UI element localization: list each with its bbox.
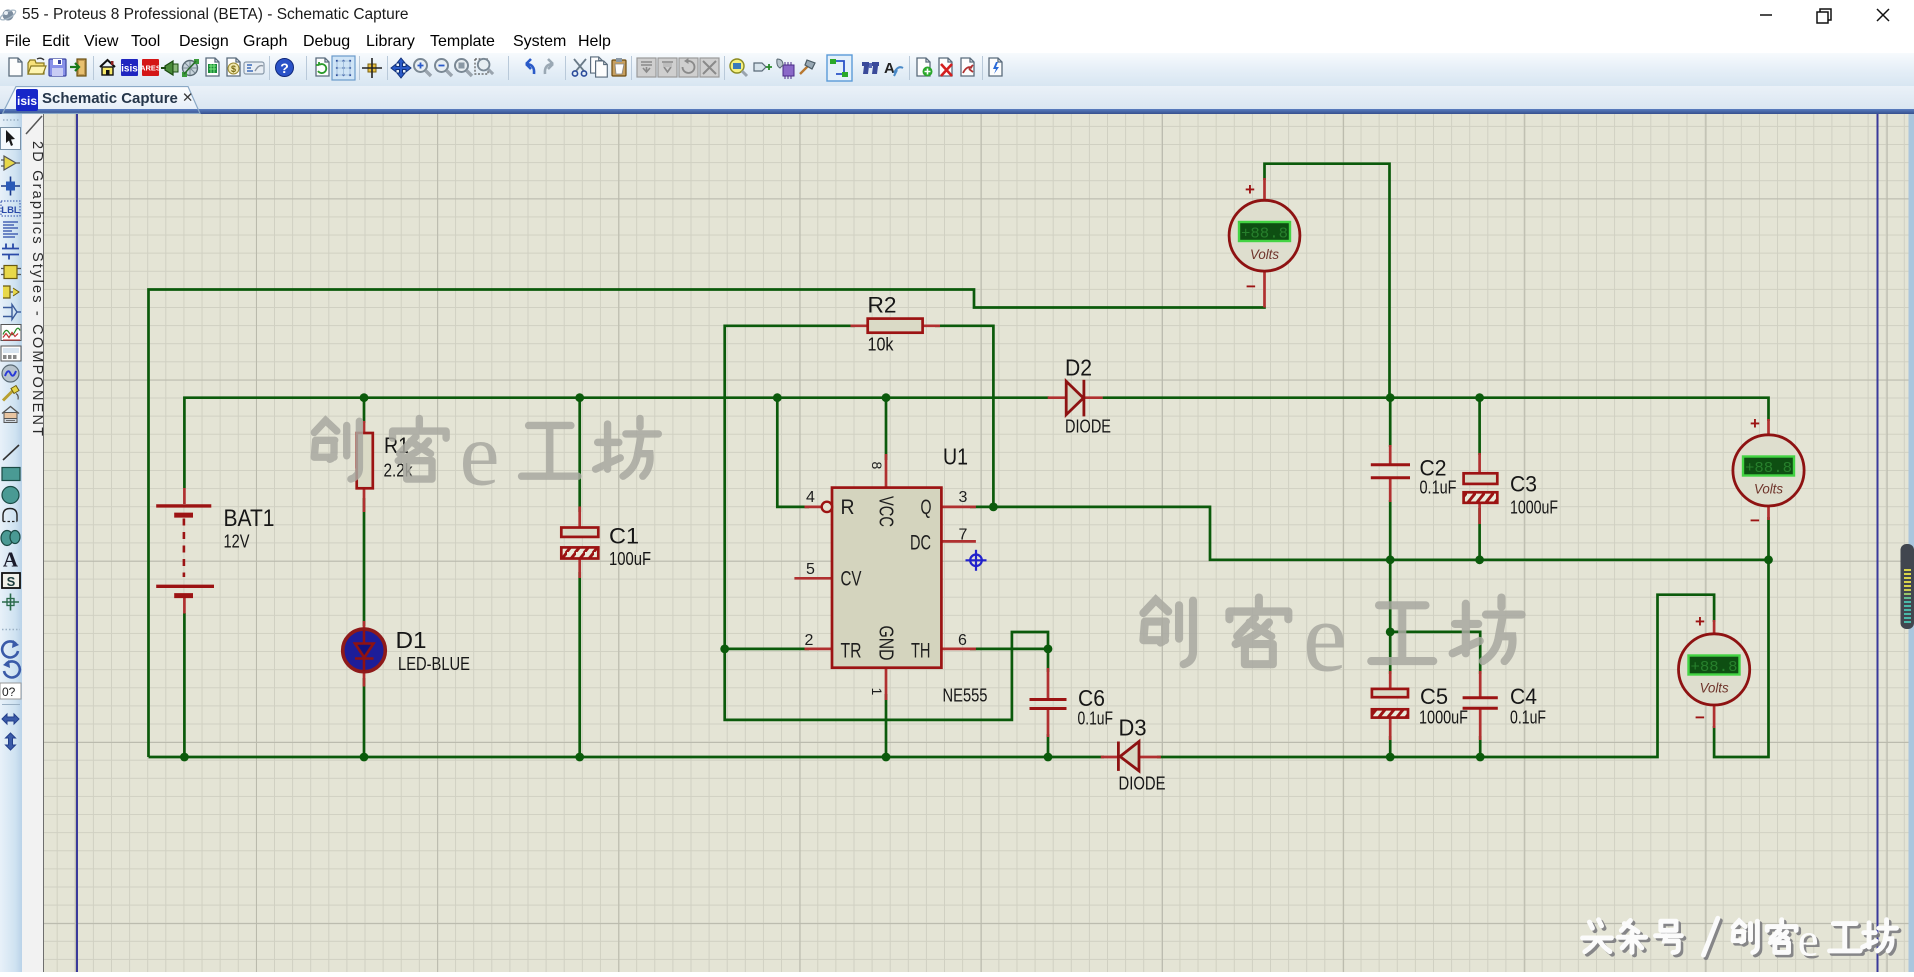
wire VCC bus bbox=[184, 398, 1049, 488]
junction node C1/ground bbox=[575, 753, 584, 762]
voltmeter right bbox=[1733, 435, 1804, 506]
scrollbar track bbox=[1909, 114, 1914, 972]
svg-text:TH: TH bbox=[911, 640, 931, 663]
pin stub bottom VM plus bbox=[1713, 620, 1716, 634]
svg-text:+: + bbox=[1750, 414, 1760, 433]
watermark banner bottom right shadow bbox=[1585, 917, 1899, 969]
wire C1 top bbox=[578, 398, 581, 512]
svg-text:1: 1 bbox=[869, 688, 885, 696]
svg-text:C4: C4 bbox=[1510, 684, 1537, 709]
pin stub right VM plus bbox=[1767, 419, 1770, 435]
svg-text:0.1uF: 0.1uF bbox=[1420, 478, 1457, 498]
wire bottom voltmeter minus to mid bus bbox=[1714, 560, 1768, 757]
wire pin3 to mid bus bbox=[970, 507, 1769, 560]
svg-text:C6: C6 bbox=[1078, 685, 1105, 711]
pin stub C1 top bbox=[578, 507, 581, 528]
svg-text:100uF: 100uF bbox=[609, 549, 651, 569]
pin stub U1 pin5 bbox=[794, 577, 832, 580]
wire pin2 branch bbox=[725, 648, 809, 651]
wire top voltmeter link bbox=[1265, 164, 1390, 398]
wire C2 top bbox=[1389, 398, 1392, 447]
pin stub bottom VM minus bbox=[1713, 705, 1716, 728]
U1 pin4 inversion bubble bbox=[822, 502, 832, 512]
pin stub U1 pin8 bbox=[885, 454, 888, 488]
pin stub C1 bottom bbox=[578, 559, 581, 579]
svg-text:Q: Q bbox=[921, 496, 932, 519]
pin stub U1 pin7 bbox=[941, 540, 976, 543]
pin stub D3 left bbox=[1101, 756, 1119, 759]
svg-text:4: 4 bbox=[806, 489, 815, 506]
pin stub C2 bottom bbox=[1389, 479, 1392, 503]
polarity marks bbox=[1245, 180, 1760, 727]
junction node R2/pin3 bbox=[989, 503, 998, 512]
wire C6 bottom bbox=[1047, 734, 1050, 757]
wire right voltmeter bottom bbox=[1767, 517, 1770, 560]
svg-text:C3: C3 bbox=[1510, 472, 1537, 497]
svg-text:DIODE: DIODE bbox=[1119, 774, 1166, 794]
svg-text:C5: C5 bbox=[1420, 684, 1448, 709]
svg-text:10k: 10k bbox=[868, 335, 895, 355]
junction node C5/out bbox=[1386, 753, 1395, 762]
wire C3 top bbox=[1478, 398, 1481, 455]
voltmeter top bbox=[1229, 200, 1300, 271]
capacitor C5 bbox=[1372, 689, 1408, 718]
diode D2 bbox=[1066, 380, 1084, 417]
capacitor C4 bbox=[1463, 698, 1498, 709]
wire ground bus right of D3 bbox=[1157, 595, 1714, 757]
svg-text:+88.8: +88.8 bbox=[1691, 659, 1738, 676]
pin stub R1 top bbox=[363, 421, 366, 433]
svg-text:+: + bbox=[1695, 612, 1705, 631]
svg-text:6: 6 bbox=[958, 632, 967, 649]
wire top loop horizontal bbox=[149, 290, 1266, 758]
wire R2 right to pin3 bbox=[935, 326, 993, 507]
pin stub D3 right bbox=[1139, 756, 1161, 759]
wire pin6 branch bbox=[970, 648, 1048, 651]
pin stub C4 bottom bbox=[1479, 709, 1482, 741]
sheet border left bbox=[76, 114, 78, 972]
pin stub D1 bottom bbox=[363, 672, 366, 687]
junction node C4/out bbox=[1476, 753, 1485, 762]
pin stub R1 bottom bbox=[363, 488, 366, 512]
watermark text right bbox=[1143, 583, 1521, 692]
wire pin4 branch bbox=[777, 398, 809, 507]
capacitor C1 bbox=[561, 528, 598, 559]
wire D1 to ground bbox=[363, 678, 366, 757]
svg-text:BAT1: BAT1 bbox=[224, 505, 275, 532]
junction node C6/ground bbox=[1044, 753, 1053, 762]
svg-text:CV: CV bbox=[841, 568, 862, 591]
svg-text:−: − bbox=[1246, 277, 1256, 296]
resistor R2 bbox=[868, 319, 923, 333]
op-amp U1 555 timer body bbox=[832, 488, 941, 668]
wire battery to ground bus bbox=[183, 613, 186, 757]
capacitor C3 bbox=[1464, 473, 1498, 503]
pin stub U1 pin2 bbox=[805, 648, 833, 651]
svg-text:12V: 12V bbox=[224, 532, 250, 552]
junction node pin6/C6 bbox=[1044, 645, 1053, 654]
junction node pin8/VCC bbox=[882, 393, 891, 402]
svg-text:R2: R2 bbox=[868, 293, 897, 318]
svg-text:D2: D2 bbox=[1065, 355, 1092, 381]
wire C5 bottom bbox=[1389, 736, 1392, 757]
pin stub C6 top bbox=[1047, 668, 1050, 698]
svg-text:D3: D3 bbox=[1119, 715, 1147, 741]
svg-text:+88.8: +88.8 bbox=[1745, 460, 1792, 477]
svg-text:Volts: Volts bbox=[1754, 481, 1783, 497]
svg-text:8: 8 bbox=[869, 462, 885, 470]
svg-text:GND: GND bbox=[875, 626, 897, 661]
sheet border right bbox=[1877, 114, 1879, 972]
junction node battery/ground bbox=[180, 753, 189, 762]
junction node D1/ground bbox=[360, 753, 369, 762]
svg-text:−: − bbox=[1695, 708, 1705, 727]
scrollbar thumb bbox=[1901, 544, 1914, 629]
svg-text:U1: U1 bbox=[943, 444, 968, 470]
resistor R1 bbox=[357, 433, 373, 488]
junction node C5/C4 link bbox=[1386, 628, 1395, 637]
svg-text:D1: D1 bbox=[396, 627, 427, 653]
svg-text:R: R bbox=[841, 496, 855, 519]
pin stub C3 top bbox=[1478, 453, 1481, 473]
pin stub U1 pin3 bbox=[941, 506, 976, 509]
svg-text:NE555: NE555 bbox=[943, 686, 988, 706]
svg-text:Volts: Volts bbox=[1700, 680, 1729, 696]
watermark banner bottom right bbox=[1583, 914, 1897, 966]
svg-text:VCC: VCC bbox=[875, 496, 897, 527]
wire C3 bottom bbox=[1478, 508, 1481, 560]
pin stub C5 bottom bbox=[1389, 718, 1392, 740]
svg-text:C1: C1 bbox=[609, 524, 639, 549]
svg-text:1000uF: 1000uF bbox=[1419, 708, 1468, 728]
svg-text:5: 5 bbox=[806, 561, 815, 578]
junction node C1/VCC bbox=[575, 393, 584, 402]
junction node C2/VCC bbox=[1386, 393, 1395, 402]
junction node pin2 rail bbox=[720, 645, 729, 654]
watermark text left bbox=[314, 405, 658, 505]
junction node C2/mid bbox=[1386, 555, 1395, 564]
wire C5 link C4 bbox=[1390, 632, 1480, 674]
LED D1 bbox=[343, 629, 386, 672]
wire C2 bottom bbox=[1389, 500, 1392, 560]
junction node R1/VCC bbox=[360, 393, 369, 402]
junction node right VM/mid bbox=[1764, 555, 1773, 564]
pin stub C6 bottom bbox=[1047, 709, 1050, 737]
pin stub D1 top bbox=[363, 621, 366, 630]
pin stub U1 pin4 bbox=[805, 506, 822, 509]
capacitor C2 bbox=[1371, 465, 1410, 478]
wire C6 top bbox=[1047, 649, 1050, 672]
battery BAT1 bbox=[156, 506, 214, 596]
pin stub right VM minus bbox=[1767, 506, 1770, 520]
wire pin8 branch bbox=[885, 398, 888, 460]
svg-text:Volts: Volts bbox=[1250, 246, 1279, 262]
svg-text:7: 7 bbox=[959, 527, 968, 544]
pin stub R2 left bbox=[851, 324, 868, 327]
wire C5 top bbox=[1389, 560, 1392, 674]
voltmeter bottom bbox=[1679, 634, 1750, 705]
svg-text:+: + bbox=[1245, 180, 1255, 199]
pin stub top VM plus bbox=[1263, 178, 1266, 201]
mouse cursor crosshair bbox=[966, 550, 987, 571]
pin stub D2 right bbox=[1084, 396, 1103, 399]
svg-text:0.1uF: 0.1uF bbox=[1078, 709, 1114, 729]
junction node C3/mid bbox=[1475, 555, 1484, 564]
wire VCC bus right of D2 bbox=[1103, 398, 1769, 421]
junction node pin4/VCC bbox=[773, 393, 782, 402]
pin stub C2 top bbox=[1389, 445, 1392, 464]
svg-text:LED-BLUE: LED-BLUE bbox=[398, 654, 470, 674]
svg-text:2: 2 bbox=[805, 632, 814, 649]
diode D3 bbox=[1118, 742, 1139, 771]
pin stub C3 bottom bbox=[1478, 503, 1481, 524]
pin stub top VM minus bbox=[1263, 271, 1266, 308]
pin stub C5 top bbox=[1389, 671, 1392, 689]
wire C1 bottom bbox=[578, 572, 581, 757]
svg-text:TR: TR bbox=[841, 640, 862, 663]
wire R1 branch bbox=[363, 398, 366, 423]
svg-text:1000uF: 1000uF bbox=[1510, 498, 1558, 518]
pin stub U1 pin6 bbox=[941, 648, 976, 651]
wire ground bus bbox=[149, 756, 1105, 759]
wire R1 to D1 bbox=[363, 498, 366, 626]
junction node pin1/ground bbox=[882, 753, 891, 762]
pin stub battery bottom bbox=[183, 596, 186, 614]
pin stub battery top bbox=[183, 488, 186, 504]
wire C4 bottom bbox=[1479, 736, 1482, 757]
pin stub D2 left bbox=[1048, 396, 1067, 399]
svg-text:+88.8: +88.8 bbox=[1241, 226, 1288, 243]
wire pin1 to ground bbox=[885, 694, 888, 757]
svg-text:DIODE: DIODE bbox=[1065, 417, 1111, 437]
svg-text:0.1uF: 0.1uF bbox=[1510, 708, 1546, 728]
svg-text:DC: DC bbox=[910, 532, 931, 555]
svg-text:−: − bbox=[1750, 511, 1760, 530]
svg-text:3: 3 bbox=[959, 489, 968, 506]
pin stub C4 top bbox=[1479, 671, 1482, 698]
capacitor C6 bbox=[1030, 700, 1067, 709]
wire R2 left rail bbox=[725, 326, 1048, 720]
junction node C3/VCC bbox=[1475, 393, 1484, 402]
pin stub U1 pin1 bbox=[885, 668, 888, 700]
pin stub R2 right bbox=[923, 324, 940, 327]
